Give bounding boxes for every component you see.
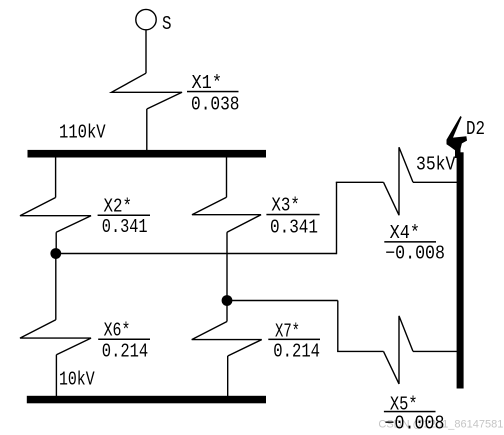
- wire X5 to 35kV busbar: [413, 350, 458, 352]
- busbar 110kV: [28, 150, 267, 158]
- wire node B horizontal: [227, 300, 338, 302]
- wire X2 to node A: [55, 232, 57, 253]
- wire busbar to X2: [55, 158, 57, 198]
- wire node A horizontal: [56, 253, 337, 255]
- svg-text:S: S: [162, 13, 172, 35]
- fraction bar X5: [384, 411, 436, 413]
- svg-text:0.214: 0.214: [273, 340, 320, 362]
- busbar 10kV: [27, 396, 266, 404]
- wire corner down to X5: [337, 301, 339, 352]
- svg-text:0.341: 0.341: [102, 216, 148, 238]
- wire X6 to 10kV busbar: [55, 355, 57, 397]
- svg-text:X4*: X4*: [390, 222, 420, 244]
- svg-text:−0.008: −0.008: [385, 243, 445, 265]
- wire into X5: [337, 350, 383, 352]
- wire X4 to 35kV busbar: [413, 181, 458, 183]
- svg-text:D2: D2: [466, 118, 485, 140]
- wire X7 to 10kV busbar: [227, 356, 229, 397]
- source S: [136, 9, 156, 29]
- svg-text:10kV: 10kV: [59, 369, 95, 391]
- wire node A down to X6: [55, 254, 57, 320]
- wire source to X1: [145, 30, 147, 74]
- svg-text:X2*: X2*: [104, 196, 133, 218]
- svg-text:0.038: 0.038: [191, 94, 240, 116]
- svg-text:35kV: 35kV: [416, 154, 456, 176]
- fraction bar X7: [268, 339, 320, 341]
- node A junction dot: [50, 248, 61, 259]
- wire into X4: [336, 181, 384, 183]
- svg-text:X1*: X1*: [192, 72, 223, 94]
- fraction bar X4: [384, 241, 436, 243]
- wire X3 to node B: [226, 232, 228, 300]
- fraction bar X2: [98, 215, 150, 217]
- wire node A up to X4: [336, 182, 338, 254]
- fraction bar X6: [98, 339, 150, 341]
- svg-text:X6*: X6*: [104, 320, 131, 342]
- svg-text:0.341: 0.341: [270, 216, 318, 238]
- wire busbar to X3: [226, 158, 228, 198]
- fraction bar X1: [187, 91, 239, 93]
- reactance X1: [112, 73, 183, 109]
- busbar 35kV: [457, 152, 464, 388]
- svg-text:X3*: X3*: [271, 195, 300, 217]
- wire node B to X7: [226, 301, 228, 322]
- reactance X3: [192, 197, 261, 232]
- svg-text:0.214: 0.214: [102, 340, 148, 362]
- reactance X6: [20, 320, 91, 355]
- svg-text:110kV: 110kV: [59, 122, 106, 144]
- node B junction dot: [222, 295, 233, 306]
- reactance X7: [192, 322, 262, 357]
- fraction bar X3: [266, 214, 319, 216]
- svg-text:−0.008: −0.008: [385, 412, 445, 434]
- reactance X5: [384, 316, 414, 384]
- reactance X4: [384, 147, 414, 215]
- wire X1 to 110kV busbar: [146, 109, 148, 151]
- reactance X2: [20, 198, 91, 233]
- fault bolt D2: [447, 116, 468, 158]
